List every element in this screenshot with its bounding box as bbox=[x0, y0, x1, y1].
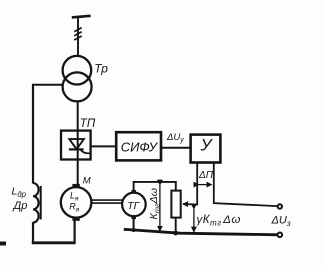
potentiometer resistor bbox=[171, 191, 180, 218]
amplifier U box bbox=[191, 135, 221, 163]
wire: main vertical (transformer to motor) bbox=[77, 101, 79, 186]
svg-text:Др: Др bbox=[12, 200, 28, 212]
svg-text:γКтгΔω: γКтгΔω bbox=[197, 214, 241, 228]
inductor Dr core bar bbox=[40, 186, 42, 220]
AC break ticks bbox=[74, 28, 81, 40]
svg-text:ТП: ТП bbox=[80, 118, 96, 130]
transformer Tp secondary winding bbox=[63, 72, 92, 101]
terminal circle upper bbox=[278, 204, 282, 208]
svg-text:ΔП: ΔП bbox=[198, 170, 214, 181]
svg-text:ΔUз: ΔUз bbox=[271, 214, 291, 228]
dimension arrow dP bbox=[199, 184, 212, 186]
svg-text:Lдр: Lдр bbox=[12, 186, 27, 199]
wire: SIFU to U bbox=[161, 147, 191, 149]
TG brush top bbox=[132, 190, 136, 193]
wire: bottom left loop bbox=[32, 241, 76, 244]
thyristor converter TP box bbox=[61, 131, 91, 160]
transformer Tp primary winding bbox=[63, 56, 92, 85]
shaft coupling double line bbox=[92, 199, 123, 201]
svg-text:КтгΔω: КтгΔω bbox=[148, 188, 161, 219]
wire: TP to SIFU bbox=[91, 145, 117, 147]
thyristor triangle bbox=[69, 139, 84, 149]
SIFU box bbox=[116, 132, 161, 160]
svg-text:У: У bbox=[200, 136, 214, 155]
motor brush top bbox=[72, 184, 79, 188]
wire: U right drop to terminal bbox=[214, 163, 278, 207]
wire: resistor bottom bbox=[175, 218, 177, 234]
wire: left vertical lower bbox=[32, 222, 34, 243]
svg-text:СИФУ: СИФУ bbox=[121, 139, 159, 154]
svg-text:М: М bbox=[83, 176, 91, 187]
motor brush bottom bbox=[72, 217, 79, 221]
thyristor cathode bar bbox=[69, 148, 84, 150]
wire: motor return riser bbox=[73, 220, 75, 244]
thyristor gate lead bbox=[81, 150, 91, 154]
TG brush bottom bbox=[132, 216, 136, 219]
wire: supply drop bbox=[77, 17, 79, 57]
motor M circle bbox=[61, 187, 92, 218]
svg-text:ΔUу: ΔUу bbox=[166, 132, 184, 144]
terminal circle lower bbox=[278, 233, 283, 238]
junction dot resistor bottom bbox=[173, 231, 178, 236]
junction dot TG bottom bbox=[132, 228, 136, 232]
tachogenerator TG circle bbox=[122, 193, 146, 217]
wire: U output to wiper (with arrow) bbox=[183, 163, 197, 205]
dimension arrow K_tg bbox=[159, 185, 161, 231]
wire: left vertical bbox=[32, 84, 34, 184]
wire: TG top link to resistor bbox=[134, 182, 176, 193]
svg-text:ТГ: ТГ bbox=[127, 200, 140, 212]
wire: TG bottom bbox=[133, 216, 135, 231]
dimension arrow gamma bbox=[193, 209, 195, 232]
wire: transformer left tap bbox=[32, 84, 63, 86]
svg-text:Тр: Тр bbox=[94, 62, 108, 76]
edge smudge bbox=[0, 242, 6, 246]
inductor Dr coil bbox=[33, 183, 39, 223]
supply terminal bar bbox=[72, 16, 91, 18]
wire: bottom bus to terminal bbox=[124, 229, 278, 235]
